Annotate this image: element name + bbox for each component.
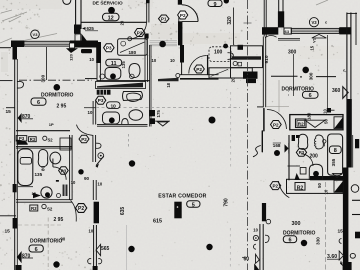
- pencil scribble top-left: [1, 10, 27, 22]
- label box 6 dorm2: [303, 91, 319, 98]
- column dot dorm1: [54, 84, 61, 91]
- right bath door black wedge: [295, 173, 301, 180]
- laundry window band (faint): [150, 41, 178, 46]
- hexagon P2 hall upper: [79, 135, 89, 143]
- svg-text:90: 90: [84, 176, 90, 181]
- svg-text:DORMITORIO: DORMITORIO: [30, 239, 63, 245]
- bath2 toilet oval: [129, 110, 143, 121]
- left exterior wall black segment: [13, 45, 18, 60]
- svg-text:10: 10: [98, 182, 103, 187]
- S2 symbol lower: [42, 204, 46, 208]
- hidden dashes mid: [96, 107, 240, 109]
- column dot estar top: [209, 117, 216, 124]
- service door arc: [130, 23, 147, 39]
- left wall black pier mid: [13, 184, 17, 192]
- svg-text:565: 565: [101, 246, 110, 252]
- cabinet row1 open triangle: [305, 120, 325, 127]
- cabinet row1 R2 inner box: [296, 119, 307, 128]
- kitchen D fixture: [228, 53, 234, 60]
- svg-text:50: 50: [324, 119, 329, 124]
- hexagon P2 kitchen top: [178, 11, 188, 19]
- svg-text:175: 175: [156, 110, 161, 118]
- circle V3 top (cut): [63, 0, 71, 4]
- party wall black mid2: [343, 168, 349, 263]
- svg-text:10: 10: [324, 189, 329, 194]
- corner into dorm2 door: [257, 106, 263, 108]
- bath2 small omega fixture: [122, 119, 129, 125]
- right bath valve symbol: [323, 140, 326, 143]
- wall pier top-left middle: [70, 41, 98, 48]
- window top-left: [24, 41, 70, 46]
- squiggle door mark: [253, 146, 261, 157]
- svg-text:9: 9: [213, 2, 216, 8]
- svg-text:6: 6: [35, 247, 38, 253]
- S2 symbol hall: [43, 136, 47, 140]
- box R3 hall a: [16, 136, 27, 141]
- laundry tub: [118, 39, 148, 56]
- bath2 wide bidet: [123, 92, 143, 101]
- svg-text:15: 15: [6, 109, 12, 115]
- cabinet row1 outer: [290, 115, 343, 130]
- svg-text:DORMITORIO: DORMITORIO: [283, 230, 316, 236]
- dim line x291: [293, 54, 295, 96]
- party wall black bar upper: [278, 11, 284, 27]
- svg-text:DE SERVICIO: DE SERVICIO: [93, 0, 123, 5]
- bath1 toilet oval: [129, 64, 140, 78]
- mid vertical wall (kitchen/service): [262, 37, 264, 108]
- pencil guides dorm2: [278, 80, 280, 112]
- svg-text:2 95: 2 95: [54, 217, 64, 223]
- dorm1 window wedge: [66, 48, 78, 53]
- circle V3 right: [309, 18, 318, 27]
- svg-text:20: 20: [119, 20, 124, 25]
- bath2 left wall double: [92, 101, 94, 125]
- svg-text:8: 8: [334, 148, 337, 154]
- estar black column: [174, 202, 181, 219]
- svg-text:135: 135: [35, 172, 43, 177]
- kitchen left wall black stub lower: [178, 21, 182, 45]
- svg-text:DORMITORIO: DORMITORIO: [282, 87, 315, 93]
- dorm2 door jamb: [263, 109, 265, 131]
- fixture dot bath2 toilet: [109, 117, 115, 123]
- door knob circle: [266, 219, 271, 224]
- label box 6 dorm3: [29, 245, 43, 252]
- label box 6 dorm4: [283, 236, 296, 243]
- svg-text:R3: R3: [31, 206, 37, 211]
- window label box on pier: [70, 43, 75, 48]
- fixture dot hall: [78, 169, 83, 174]
- washbasin bath1 toilet square: [105, 68, 121, 80]
- svg-text:R2: R2: [297, 185, 304, 191]
- svg-text:P2: P2: [78, 206, 84, 212]
- svg-text:330: 330: [316, 237, 321, 245]
- svg-text:V3: V3: [33, 32, 39, 37]
- centerline dash-dot horizontal dorm1: [19, 79, 92, 81]
- service room right wall: [146, 0, 150, 3]
- svg-text:90: 90: [61, 237, 66, 242]
- column dot top edge: [224, 0, 229, 4]
- svg-text:300: 300: [308, 72, 313, 80]
- svg-text:P2: P2: [273, 122, 279, 127]
- label box 5 estar: [187, 201, 200, 208]
- eraser smudge service yard: [182, 33, 240, 44]
- svg-text:c,: c,: [343, 68, 346, 73]
- patio edge line: [233, 8, 235, 46]
- svg-text:6: 6: [37, 100, 40, 106]
- left wall black foot: [16, 265, 22, 270]
- left bathtub: [18, 149, 33, 186]
- svg-text:63: 63: [285, 29, 290, 34]
- svg-text:168: 168: [273, 143, 281, 148]
- closet partition dorm1: [46, 47, 48, 80]
- service wall black node: [74, 25, 81, 34]
- svg-text:ESTAR COMEDOR: ESTAR COMEDOR: [158, 193, 206, 199]
- pencil diagonal bottom-left of window wall: [0, 38, 12, 43]
- right bath bottom wall black: [310, 176, 347, 180]
- svg-text:300: 300: [288, 49, 297, 55]
- svg-text:20: 20: [230, 77, 235, 82]
- eraser smudge left margin: [1, 52, 8, 72]
- bath2 door open triangle: [158, 122, 168, 126]
- left bathroom top hall wall: [16, 130, 70, 132]
- column dot kitchen: [223, 44, 228, 49]
- right bath door line: [288, 165, 301, 167]
- top bath floor wall: [85, 78, 97, 80]
- svg-text:1P: 1P: [49, 122, 54, 127]
- svg-text:360: 360: [332, 88, 341, 94]
- dorm4 door wedge: [254, 263, 259, 270]
- top bath left wall: [96, 42, 101, 63]
- svg-text:10: 10: [152, 58, 157, 63]
- party wall stub top double: [278, 0, 280, 12]
- label box 10 bath2: [107, 102, 121, 109]
- svg-text:870: 870: [22, 253, 31, 259]
- svg-text:DORMITORIO: DORMITORIO: [41, 93, 74, 99]
- cabinet row2 diag box: [334, 180, 343, 192]
- hexagon P3 left bath: [59, 167, 69, 174]
- svg-text:100: 100: [214, 50, 223, 56]
- kitchen counter tall right: [231, 46, 263, 68]
- closet triangle 355: [333, 173, 342, 177]
- column dot dorm3: [53, 261, 59, 267]
- party wall right side double upper: [346, 13, 348, 100]
- door arc bath2 to hall: [77, 125, 93, 136]
- label box 12: [103, 13, 120, 20]
- svg-text:P3: P3: [106, 46, 112, 51]
- black piers beside shaft: [149, 110, 155, 116]
- dimension tick left y80: [0, 80, 13, 82]
- cabinet row2 R2 inner box: [295, 183, 305, 191]
- label box 6 dorm1: [31, 98, 46, 105]
- fixture dot right bath sink: [313, 171, 319, 177]
- estar west door open triangle 565: [96, 244, 101, 255]
- svg-text:180: 180: [129, 50, 137, 55]
- kitchen stove black: [243, 72, 258, 79]
- label box 9: [208, 0, 222, 7]
- hall door arc to dorm3: [71, 201, 77, 222]
- svg-text:15: 15: [5, 229, 11, 235]
- fixture dot left bath lavatory: [45, 192, 50, 197]
- right bath door leaf triangle: [285, 144, 289, 152]
- svg-text:15: 15: [338, 229, 344, 235]
- svg-text:P3: P3: [61, 168, 67, 173]
- svg-text:S2: S2: [47, 207, 53, 212]
- svg-text:P3: P3: [98, 98, 104, 103]
- top bath right wall double: [148, 45, 150, 127]
- svg-text:5: 5: [192, 202, 195, 208]
- window opening triangle: [312, 34, 327, 38]
- small arc under pier: [265, 36, 277, 38]
- svg-text:18: 18: [166, 82, 171, 87]
- dorm4 jamb hook: [265, 235, 269, 242]
- column dot service: [108, 7, 115, 14]
- svg-text:10: 10: [89, 228, 94, 233]
- hall left wall double: [69, 135, 71, 200]
- svg-text:P2: P2: [81, 137, 87, 142]
- svg-text:10: 10: [89, 57, 94, 62]
- kitchen future dashed box: [209, 47, 231, 62]
- column dot right hall: [274, 150, 280, 156]
- dorm1 D hook on wall: [18, 81, 24, 88]
- left bathroom upper wall double: [16, 145, 72, 147]
- estar right wall black leaf: [262, 203, 266, 221]
- party wall black mid1: [346, 99, 351, 168]
- dorm4 left wall double: [259, 224, 261, 270]
- dorm4E C hook: [339, 239, 341, 244]
- column dot window left: [159, 41, 166, 48]
- svg-text:615: 615: [153, 219, 162, 225]
- svg-text:P3: P3: [299, 150, 305, 155]
- eraser smudge right of dorm2: [298, 46, 344, 59]
- estar right wall jamb: [261, 131, 263, 152]
- hall right wall lower double: [92, 180, 94, 200]
- svg-text:P2: P2: [137, 30, 143, 35]
- black half moon: [17, 140, 28, 145]
- eraser smudge patio: [151, 24, 179, 39]
- vanity band outline: [96, 82, 146, 89]
- svg-text:V3: V3: [311, 20, 317, 25]
- right bath toilet pear: [314, 135, 323, 149]
- right bath sink with dot: [309, 164, 322, 180]
- vanity dark taper: [97, 83, 143, 88]
- svg-text:10: 10: [253, 228, 258, 233]
- svg-text:P2: P2: [272, 183, 278, 188]
- left bath round sink: [50, 152, 61, 164]
- dim arrow 360 right: [343, 87, 348, 99]
- svg-text:10: 10: [71, 180, 76, 185]
- wall pier top-left corner: [11, 41, 24, 48]
- left bath door arc: [53, 167, 66, 180]
- black sq below dim line: [327, 108, 331, 113]
- hall duct hatched: [63, 185, 68, 197]
- hinge hooks estar west: [88, 259, 92, 264]
- svg-text:10: 10: [88, 110, 93, 115]
- svg-text:6: 6: [309, 93, 312, 99]
- kitchen bottom wall double: [180, 74, 219, 76]
- left bath toilet pear: [38, 150, 48, 167]
- shelf bar right of shaft: [158, 78, 179, 82]
- right bath door arc: [301, 154, 313, 166]
- cabinet row1 diag box: [334, 117, 343, 129]
- left exterior wall double line: [14, 59, 16, 270]
- svg-text:15: 15: [310, 45, 315, 50]
- pencil diagonal top-right: [316, 0, 328, 5]
- svg-text:P2: P2: [180, 13, 186, 18]
- black cabinet rect dorm1: [81, 49, 92, 53]
- column dot dorm4: [301, 240, 307, 246]
- svg-text:2 95: 2 95: [57, 104, 67, 110]
- label box 8 closet: [329, 146, 341, 154]
- hexagon P2 hall lower: [76, 204, 87, 213]
- hexagon P2 kitchen door: [194, 65, 204, 73]
- right bath small box: [300, 168, 306, 175]
- svg-text:120: 120: [68, 53, 73, 60]
- hexagon P2 dorm4 door: [270, 182, 281, 190]
- hexagon P3 laundry: [104, 44, 115, 52]
- svg-text:R3: R3: [30, 137, 36, 142]
- service door sill rect: [75, 34, 81, 42]
- hexagon P1: [159, 15, 170, 22]
- circle V3 left: [31, 30, 40, 39]
- svg-text:10: 10: [111, 104, 117, 110]
- hexagon P2 service: [135, 29, 145, 37]
- box R3 hall b: [29, 137, 37, 142]
- service door hinge circle: [128, 37, 132, 41]
- svg-text:10: 10: [170, 58, 175, 63]
- hall diagonal arrow: [96, 156, 104, 166]
- left bath door jamb: [52, 159, 54, 167]
- svg-text:50: 50: [317, 183, 322, 188]
- window pier right-right: [339, 27, 351, 34]
- hexagon P3 right bath: [296, 149, 306, 157]
- dorm3 door leaf triangle 870: [17, 251, 22, 263]
- fixture dot bath1 toilet: [110, 73, 116, 79]
- dorm2 door arc lower (dorm4): [278, 181, 289, 198]
- eraser smudge top strip: [0, 0, 62, 9]
- svg-text:6: 6: [288, 238, 291, 244]
- svg-text:135: 135: [121, 61, 126, 69]
- hall right wall upper double: [92, 135, 94, 162]
- hall closet box: [60, 138, 71, 150]
- dim arrow 3.60: [339, 251, 343, 260]
- svg-text:635: 635: [120, 207, 126, 216]
- svg-text:P2: P2: [196, 67, 202, 72]
- bath inner wall A: [144, 39, 146, 83]
- service / laundry divider wall: [81, 21, 147, 23]
- svg-text:910: 910: [264, 55, 270, 63]
- window sill box 63: [284, 28, 291, 34]
- svg-text:300: 300: [41, 74, 46, 82]
- dimension tick left y107: [6, 107, 15, 109]
- bath1 small circle: [100, 74, 105, 79]
- svg-text:625: 625: [87, 26, 95, 31]
- svg-text:12: 12: [108, 15, 114, 21]
- kitchen door arc: [189, 56, 207, 74]
- dorm2 dimension line: [271, 75, 298, 77]
- svg-text:200: 200: [310, 154, 319, 160]
- svg-text:180: 180: [306, 112, 311, 120]
- window right band: [291, 28, 339, 33]
- dorm4 door symbols: [253, 235, 258, 240]
- column dot estar bottom left: [128, 246, 134, 252]
- hexagon P2 dorm2 door: [271, 121, 282, 129]
- left bathroom lower wall double: [16, 199, 72, 201]
- svg-text:790: 790: [224, 198, 230, 207]
- cabinet row2 outer: [287, 179, 344, 193]
- bath2 bottom wall double: [97, 123, 148, 125]
- pencil dashed guides dorm3: [47, 218, 49, 270]
- kitchen black corner: [238, 45, 244, 50]
- svg-text:15: 15: [32, 191, 37, 196]
- kitchen door jamb: [207, 56, 209, 75]
- centerline dash-dot vertical: [246, 0, 248, 270]
- kitchen entry door arc: [182, 5, 198, 22]
- bath2 toilet square with dot: [103, 112, 120, 124]
- pencil diagonal over left window: [24, 34, 57, 41]
- svg-text:300: 300: [292, 221, 301, 227]
- svg-text:11: 11: [111, 61, 117, 67]
- service room left wall double: [75, 0, 77, 29]
- svg-text:R2: R2: [298, 122, 304, 127]
- svg-text:80: 80: [40, 166, 45, 171]
- column dot estar mid: [129, 160, 135, 166]
- right closet tall: [328, 134, 343, 175]
- hall wall hooks: [96, 143, 101, 148]
- laundry right wall: [178, 14, 180, 40]
- kitchen counter bottom-left: [209, 68, 231, 78]
- svg-text:S2: S2: [48, 138, 54, 143]
- service door wedge triangle: [82, 34, 88, 42]
- svg-text:320: 320: [227, 16, 233, 25]
- svg-text:10: 10: [323, 109, 328, 114]
- right unit bath left wall: [288, 135, 290, 180]
- left bath lavatory circle: [41, 187, 52, 198]
- right bath nw black bits: [292, 135, 295, 141]
- kitchen left wall black stub top: [178, 0, 182, 5]
- dorm1 door leaf triangle 870: [18, 113, 22, 123]
- kitchen counter bottom-right: [231, 68, 253, 78]
- wall return line top-left corner: [0, 47, 11, 49]
- label box 11: [106, 59, 122, 66]
- estar west black door leaf: [94, 202, 99, 224]
- column dot estar bottom right: [206, 244, 212, 250]
- svg-text:870: 870: [22, 114, 31, 120]
- dim line x327.8: [326, 35, 328, 108]
- hexagon P3 bath2: [96, 96, 106, 104]
- party wall black foot: [343, 262, 352, 270]
- svg-text:P1: P1: [161, 17, 167, 22]
- left wall black pier lower: [13, 218, 18, 229]
- svg-text:V1: V1: [313, 38, 317, 43]
- hatched black box: [97, 90, 111, 95]
- service right wall double: [263, 0, 265, 37]
- dimension tick left y215: [0, 215, 16, 217]
- dorm2 door arc: [267, 110, 287, 130]
- right bath toilet pear left: [298, 134, 308, 149]
- neighbor marks right edge: [355, 139, 359, 148]
- column dot dorm2: [302, 67, 309, 74]
- svg-text:355: 355: [331, 158, 336, 166]
- window pier right-left: [262, 27, 278, 34]
- estar west wall double: [93, 225, 95, 270]
- box R3 lower: [30, 205, 38, 211]
- left bath door wedge: [33, 193, 41, 199]
